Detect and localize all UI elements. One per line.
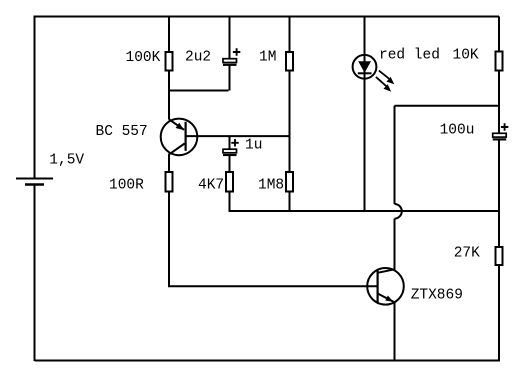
wire Q1 collector to R 100R <box>168 155 170 173</box>
wire top to R 1M <box>289 17 291 53</box>
wire top to R 100K <box>168 17 170 53</box>
wire 100K bottom to Q1 emitter <box>168 71 170 120</box>
svg-text:ZTX869: ZTX869 <box>411 287 463 303</box>
svg-text:4K7: 4K7 <box>198 178 224 194</box>
wire hop to Q2 collector <box>394 219 396 270</box>
svg-text:1M8: 1M8 <box>258 178 284 194</box>
LED D1 circle <box>353 55 377 79</box>
svg-text:10K: 10K <box>453 47 479 63</box>
wire Q2 base lead <box>168 285 378 287</box>
wire 4K7 bottom to mid rail <box>229 192 231 213</box>
wire hop over mid rail <box>395 204 402 219</box>
wire base lead to C 1u <box>229 136 231 149</box>
wire mid rail y211 <box>230 210 500 212</box>
svg-text:100R: 100R <box>109 178 144 194</box>
capacitor C3 100u plate line <box>493 138 507 140</box>
wire Q2 collector rail down to hop <box>394 106 396 204</box>
capacitor C3 100u plate box <box>493 133 507 137</box>
wire 1M8 bottom to mid rail <box>289 192 291 212</box>
svg-text:red led: red led <box>379 47 440 63</box>
transistor Q2 base bar <box>377 270 379 303</box>
battery BT1 long plate <box>16 178 53 180</box>
svg-text:1,5V: 1,5V <box>49 153 84 169</box>
wire 1M bottom to 1M8 top <box>289 71 291 173</box>
capacitor C3 plus sign <box>501 123 508 130</box>
wire 100R bottom down to Q2 base row <box>168 192 170 288</box>
wire top rail <box>35 16 500 18</box>
svg-text:BC 557: BC 557 <box>96 124 148 140</box>
capacitor C2 1u plate line <box>223 154 237 156</box>
svg-text:100K: 100K <box>126 50 161 66</box>
wire bottom rail <box>35 360 501 362</box>
LED D1 triangle <box>358 61 371 73</box>
wire 10K bottom to C 100u <box>498 71 500 134</box>
resistor 4K7 <box>226 172 233 192</box>
transistor Q2 ZTX869 circle <box>367 268 404 305</box>
svg-text:1M: 1M <box>259 50 276 66</box>
resistor 1M <box>286 52 293 71</box>
capacitor C2 1u plate box <box>223 149 237 153</box>
wire left rail upper <box>34 16 36 179</box>
resistor 100R <box>166 172 173 192</box>
wire Q1 base lead to node D <box>186 135 290 137</box>
capacitor C2 plus sign <box>231 139 238 146</box>
LED D1 cathode bar <box>358 72 372 74</box>
wire 1u bottom to R 4K7 <box>229 155 231 172</box>
svg-text:1u: 1u <box>245 138 262 154</box>
LED D1 emission arrow 1 <box>379 71 391 80</box>
transistor Q2 emitter diagonal with arrow <box>378 294 394 302</box>
resistor 10K <box>496 52 503 71</box>
wire 100u bottom to R 27K <box>498 139 500 247</box>
wire Q2 emitter to bottom rail <box>394 302 396 361</box>
capacitor C1 2u2 plate line <box>223 64 237 66</box>
svg-text:27K: 27K <box>454 245 480 261</box>
wire top to R 10K <box>498 17 500 52</box>
wire collector rail y105 <box>395 105 500 107</box>
svg-text:100u: 100u <box>440 123 475 139</box>
resistor 1M8 <box>286 172 293 192</box>
capacitor C1 2u2 plate box <box>223 59 237 63</box>
transistor Q1 base bar <box>185 122 187 151</box>
wire top to LED <box>364 17 366 212</box>
transistor Q1 BC557 circle <box>161 119 198 156</box>
wire top to C 2u2 <box>229 17 231 59</box>
wire 27K bottom to bottom rail <box>498 265 500 361</box>
battery BT1 short plate <box>25 183 44 185</box>
wire node at y90 to C 2u2 <box>169 65 230 91</box>
svg-text:2u2: 2u2 <box>185 50 211 66</box>
capacitor C1 plus sign <box>233 48 240 55</box>
resistor 100K <box>166 52 173 71</box>
transistor Q1 collector diagonal <box>169 144 185 155</box>
resistor 27K <box>496 247 503 265</box>
wire left rail lower <box>34 185 36 362</box>
transistor Q1 emitter diagonal with arrow <box>169 119 184 130</box>
transistor Q2 collector diagonal <box>378 269 395 273</box>
LED D1 emission arrow 2 <box>376 77 388 87</box>
